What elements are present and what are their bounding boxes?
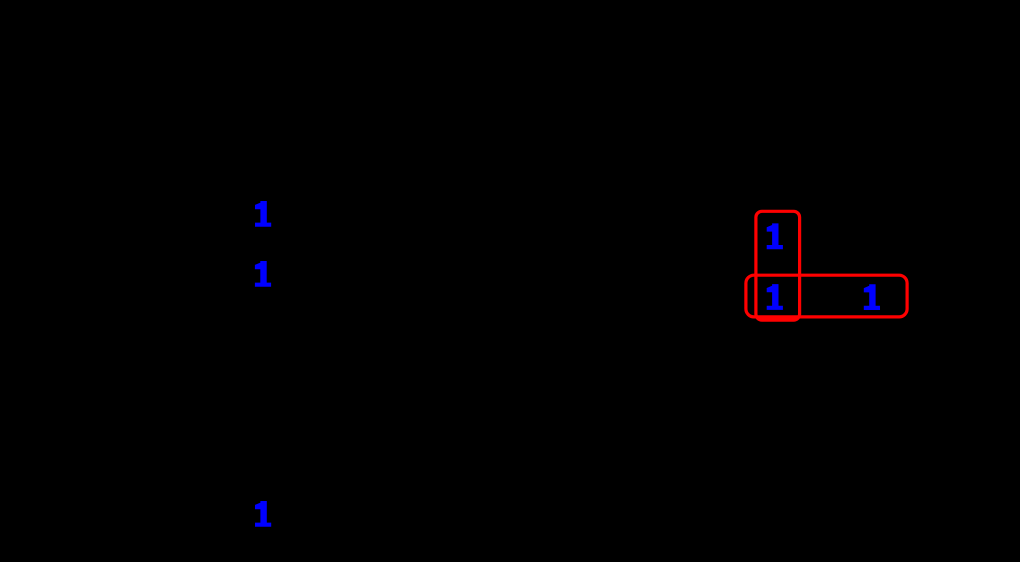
K-map cell 1: bottom-left of map <box>767 284 783 310</box>
K-map cell 1: bottom-right of map <box>864 284 880 310</box>
red group: horizontal pair (row term) <box>746 275 907 317</box>
truth table output 1 (row b) <box>255 261 271 287</box>
truth table output 1 (row a) <box>255 201 271 227</box>
red group: vertical pair (column term) <box>756 211 800 320</box>
K-map cell 1: top-left of map <box>767 223 783 249</box>
truth table output 1 (row f) <box>255 501 271 527</box>
